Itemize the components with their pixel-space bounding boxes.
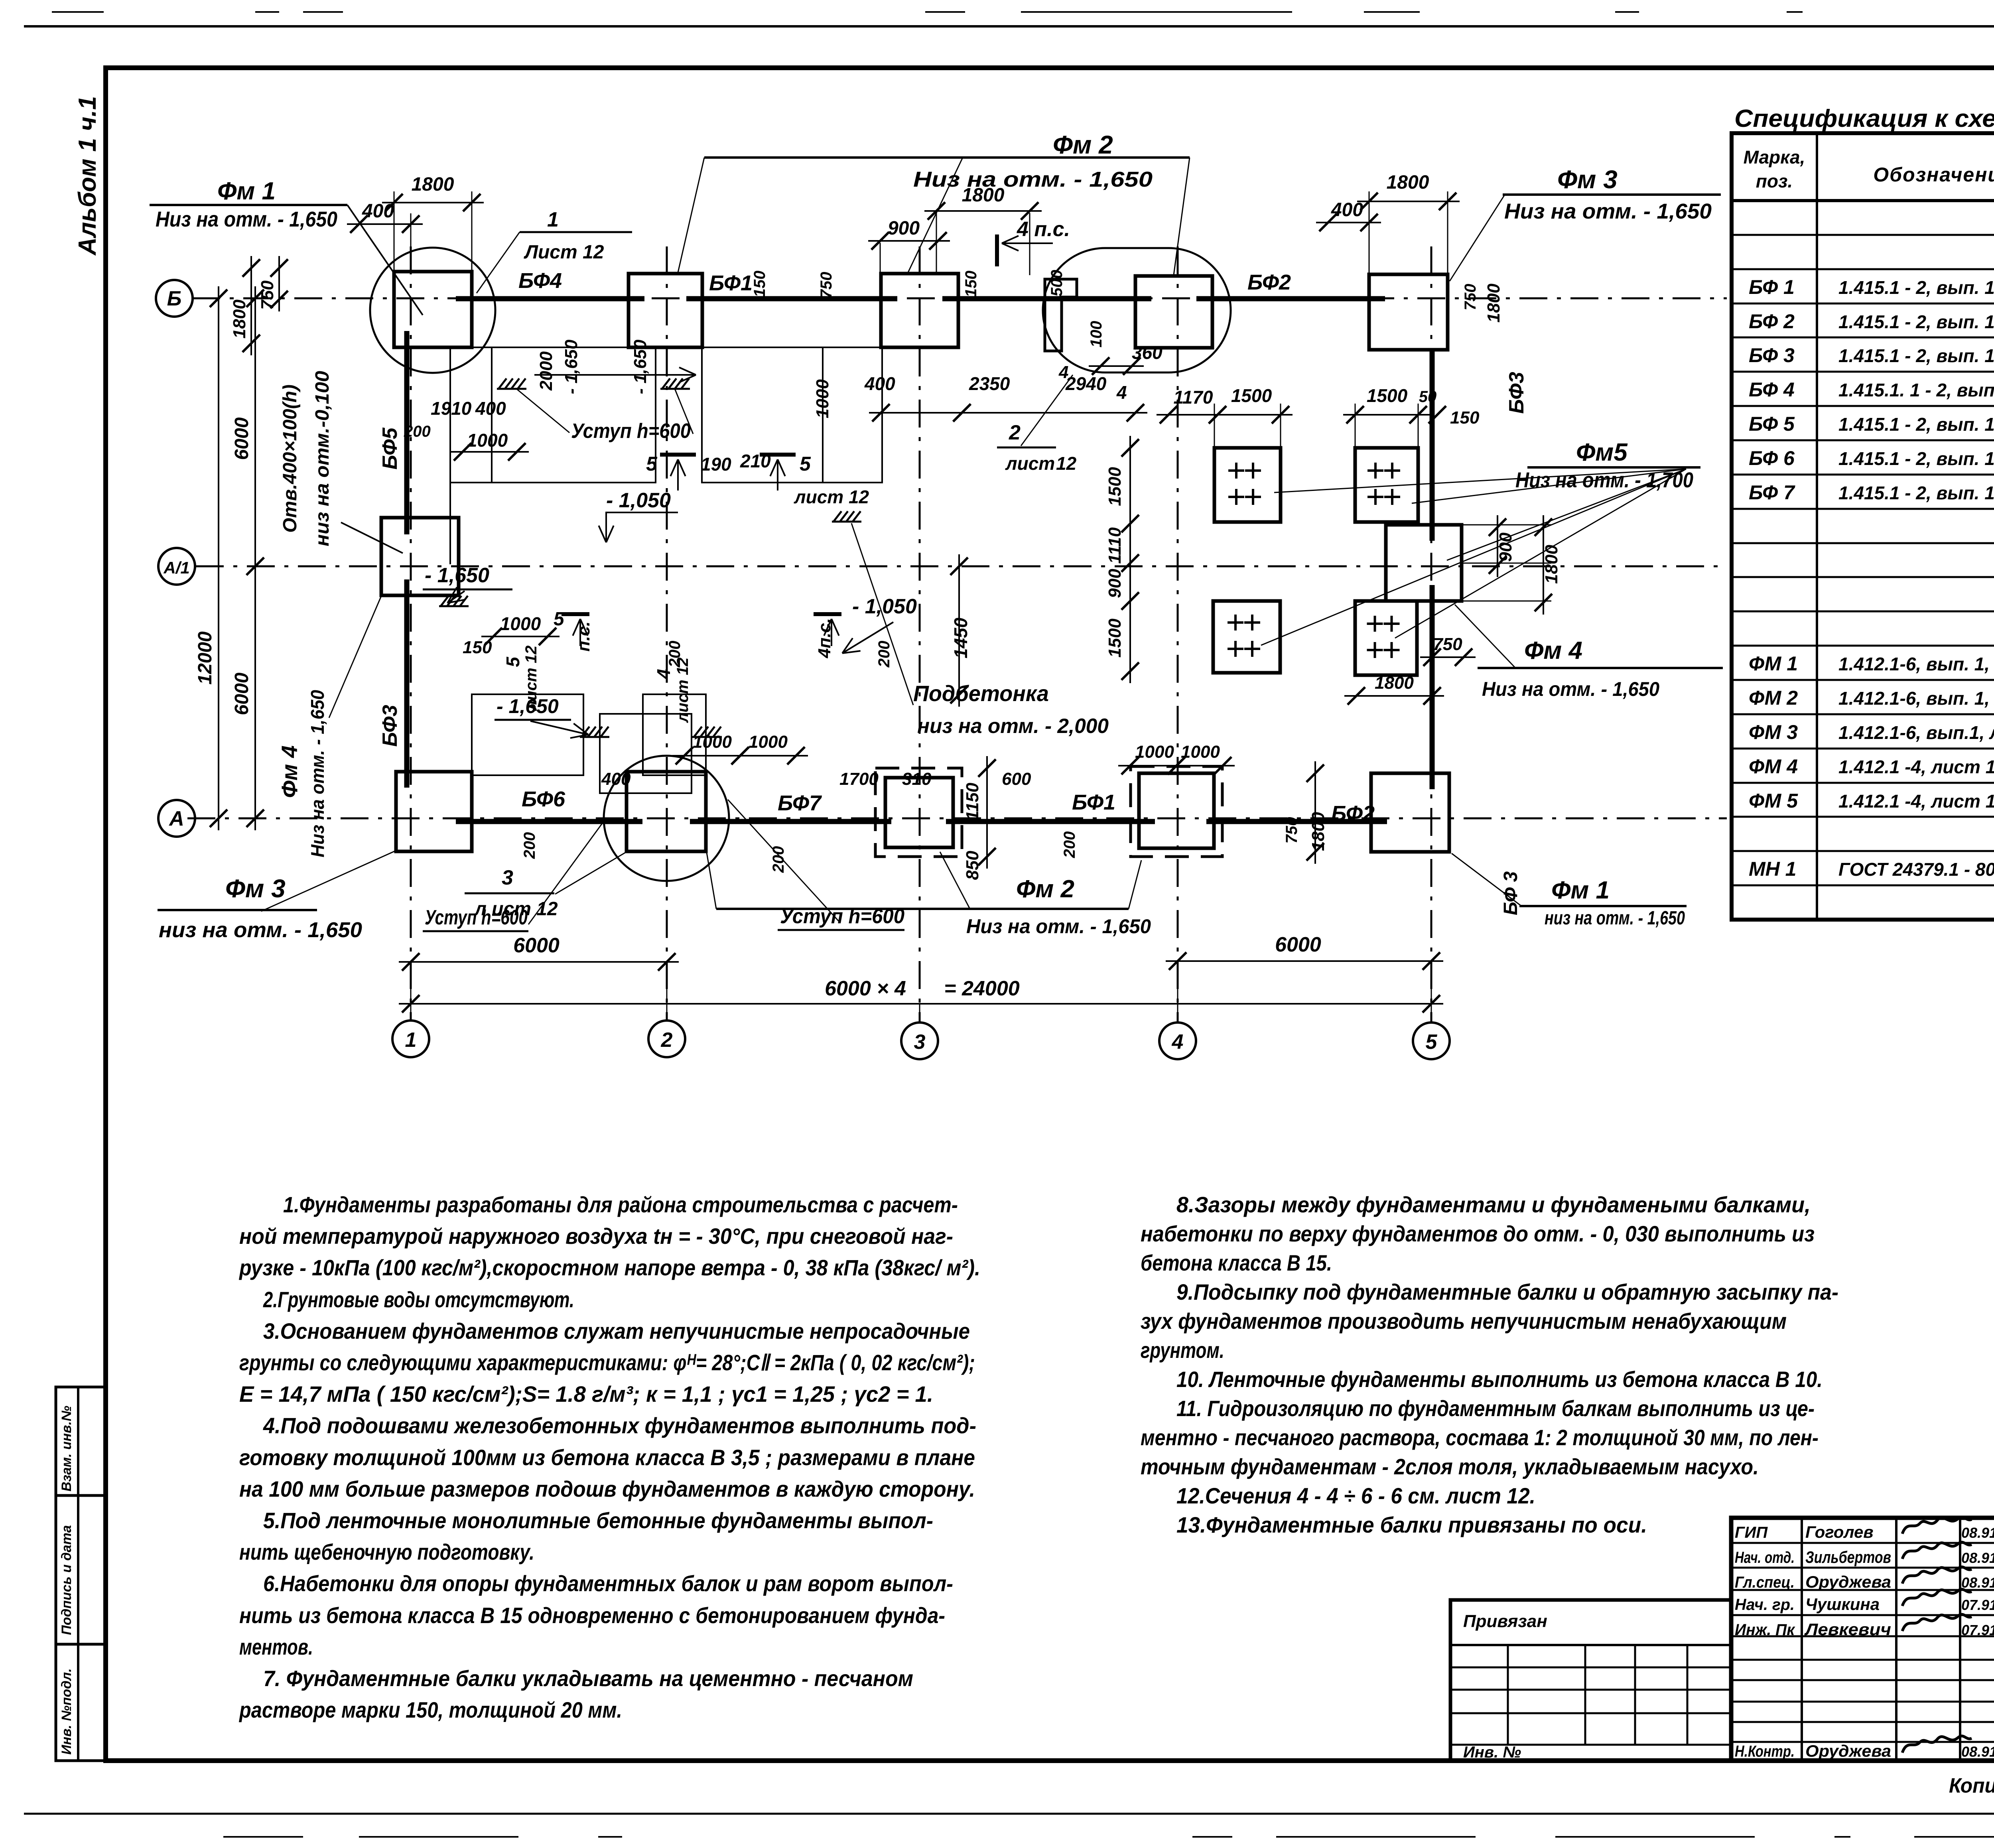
svg-text:200: 200: [875, 641, 893, 668]
svg-text:400: 400: [864, 373, 895, 394]
svg-text:Подпись и дата: Подпись и дата: [59, 1525, 74, 1635]
svg-text:1.415.1 - 2, вып. 1: 1.415.1 - 2, вып. 1: [1838, 483, 1994, 503]
svg-text:2: 2: [1009, 421, 1021, 444]
svg-text:- 1,050: - 1,050: [606, 489, 671, 512]
svg-text:07.91: 07.91: [1961, 1622, 1994, 1638]
svg-text:1150: 1150: [963, 782, 982, 820]
svg-text:1: 1: [547, 208, 559, 231]
svg-text:750: 750: [1433, 634, 1462, 654]
svg-text:Низ на отм. - 1,650: Низ на отм. - 1,650: [1482, 678, 1659, 700]
svg-text:150: 150: [463, 638, 492, 657]
svg-text:200: 200: [1061, 831, 1078, 859]
svg-text:1000: 1000: [693, 732, 732, 752]
svg-text:4: 4: [1116, 382, 1127, 403]
svg-text:3: 3: [914, 1030, 926, 1054]
svg-text:1000: 1000: [1135, 742, 1174, 762]
svg-text:растворе марки 150, толщин: растворе марки 150, толщиной 20 мм.: [238, 1697, 622, 1722]
svg-text:грунты со следующими характ: грунты со следующими характеристиками: φ…: [239, 1350, 975, 1375]
svg-text:Фм 4: Фм 4: [1524, 637, 1582, 664]
svg-text:Фм 3: Фм 3: [225, 874, 286, 903]
svg-text:Левкевич: Левкевич: [1804, 1620, 1891, 1639]
svg-text:Уступ h=600: Уступ h=600: [571, 420, 691, 443]
svg-text:2: 2: [661, 1028, 673, 1052]
svg-text:Подбетонка: Подбетонка: [913, 681, 1049, 706]
svg-text:10. Ленточные фундаменты в: 10. Ленточные фундаменты выполнить из бе…: [1176, 1367, 1823, 1392]
svg-text:150: 150: [751, 271, 768, 297]
svg-text:Гл.спец.: Гл.спец.: [1735, 1574, 1795, 1591]
svg-text:1000: 1000: [500, 613, 541, 634]
svg-text:Марка,: Марка,: [1744, 147, 1805, 167]
svg-text:Инж. Пк: Инж. Пк: [1735, 1621, 1795, 1639]
svg-text:БФ2: БФ2: [1247, 270, 1291, 294]
svg-text:11. Гидроизоляцию по фундамен: 11. Гидроизоляцию по фундаментным балкам…: [1176, 1396, 1815, 1421]
svg-text:Низ на отм. - 1,650: Низ на отм. - 1,650: [156, 207, 337, 231]
svg-text:- 1,650: - 1,650: [562, 339, 581, 394]
svg-text:ментов.: ментов.: [239, 1634, 313, 1659]
svg-text:750: 750: [1462, 284, 1479, 311]
svg-text:1500: 1500: [1105, 467, 1125, 506]
svg-text:лист: лист: [1005, 453, 1055, 474]
svg-text:1800: 1800: [412, 174, 454, 195]
svg-text:1500: 1500: [1105, 619, 1125, 658]
svg-text:низ на отм.-0,100: низ на отм.-0,100: [312, 371, 333, 546]
svg-text:Фм 2: Фм 2: [1053, 130, 1113, 159]
svg-text:БФ3: БФ3: [1505, 372, 1528, 414]
svg-text:150: 150: [962, 271, 980, 297]
svg-text:п.с.: п.с.: [574, 621, 593, 652]
svg-text:БФ5: БФ5: [378, 427, 402, 469]
svg-text:готовку толщиной 100мм из: готовку толщиной 100мм из бетона класса …: [239, 1445, 975, 1470]
svg-text:310: 310: [902, 769, 932, 789]
svg-text:13.Фундаментные балки прив: 13.Фундаментные балки привязаны по оси.: [1176, 1512, 1647, 1537]
svg-text:ФМ 1: ФМ 1: [1749, 652, 1798, 675]
svg-text:Чушкина: Чушкина: [1805, 1595, 1880, 1614]
svg-text:БФ 5: БФ 5: [1749, 413, 1795, 435]
svg-text:1.412.1-6, вып. 1, лист 13: 1.412.1-6, вып. 1, лист 13: [1838, 654, 1994, 674]
svg-text:Уступ h=600: Уступ h=600: [425, 906, 528, 929]
svg-text:12.Сечения 4 - 4 ÷ 6 - 6 с: 12.Сечения 4 - 4 ÷ 6 - 6 см. лист 12.: [1176, 1483, 1535, 1508]
svg-text:1.415.1 - 2, вып. 1: 1.415.1 - 2, вып. 1: [1838, 311, 1994, 332]
svg-text:БФ 4: БФ 4: [1749, 378, 1795, 401]
svg-text:4: 4: [1172, 1030, 1184, 1054]
svg-text:400: 400: [601, 769, 631, 789]
svg-text:4 п.с.: 4 п.с.: [1017, 218, 1070, 241]
svg-text:1.415.1 - 2, вып. 1: 1.415.1 - 2, вып. 1: [1838, 277, 1994, 298]
svg-text:Низ на отм. - 1,650: Низ на отм. - 1,650: [1504, 199, 1712, 223]
svg-text:А: А: [168, 807, 184, 830]
svg-text:нить из бетона класса В 15: нить из бетона класса В 15 одновременно …: [239, 1603, 945, 1628]
svg-text:1700: 1700: [839, 769, 879, 789]
svg-text:150: 150: [1450, 408, 1480, 428]
svg-text:нить щебеночную подготовку.: нить щебеночную подготовку.: [239, 1539, 534, 1564]
svg-text:А/1: А/1: [163, 558, 189, 577]
svg-text:6000: 6000: [231, 417, 252, 460]
svg-text:БФ 6: БФ 6: [1749, 447, 1795, 469]
svg-text:1.415.1 - 2, вып. 1: 1.415.1 - 2, вып. 1: [1838, 414, 1994, 435]
svg-text:- 1,050: - 1,050: [852, 595, 917, 618]
svg-text:4: 4: [653, 669, 674, 680]
svg-text:1800: 1800: [1387, 172, 1429, 193]
svg-text:Фм 3: Фм 3: [1557, 165, 1618, 194]
svg-text:ной температурой наружного: ной температурой наружного воздуха tн = …: [239, 1223, 953, 1249]
svg-text:низ на отм. - 2,000: низ на отм. - 2,000: [917, 715, 1109, 738]
svg-text:1000: 1000: [749, 732, 788, 752]
svg-text:5: 5: [1426, 1030, 1438, 1054]
svg-text:400: 400: [362, 201, 394, 222]
svg-text:750: 750: [1283, 817, 1300, 844]
svg-text:6.Набетонки для опоры фунда: 6.Набетонки для опоры фундаментных балок…: [263, 1571, 953, 1596]
svg-text:2000: 2000: [536, 351, 556, 391]
svg-text:ГИП: ГИП: [1735, 1524, 1768, 1541]
svg-text:1110: 1110: [1105, 527, 1125, 564]
svg-text:8.Зазоры между фундаментам: 8.Зазоры между фундаментами и фундаменым…: [1176, 1192, 1811, 1217]
svg-text:точным фундаментам - 2слоя: точным фундаментам - 2слоя толя, укладыв…: [1141, 1454, 1759, 1479]
svg-text:Альбом 1 ч.1: Альбом 1 ч.1: [74, 96, 101, 256]
svg-text:1800: 1800: [1308, 812, 1328, 851]
svg-text:9.Подсыпку под фундаментные: 9.Подсыпку под фундаментные балки и обра…: [1176, 1279, 1838, 1304]
svg-text:1910: 1910: [431, 398, 472, 419]
svg-text:ФМ 5: ФМ 5: [1749, 790, 1798, 812]
svg-text:Обозначение: Обозначение: [1873, 164, 1994, 186]
svg-text:бетона класса В 15.: бетона класса В 15.: [1141, 1250, 1332, 1275]
svg-text:1.412.1-6, вып.1, лист 13: 1.412.1-6, вып.1, лист 13: [1838, 722, 1994, 743]
svg-text:5: 5: [646, 453, 658, 475]
svg-text:1.412.1 -4, лист 13: 1.412.1 -4, лист 13: [1838, 791, 1994, 812]
svg-text:7. Фундаментные балки уклад: 7. Фундаментные балки укладывать на цеме…: [263, 1666, 913, 1691]
svg-text:БФ7: БФ7: [778, 791, 822, 815]
svg-text:1000: 1000: [1181, 742, 1220, 762]
svg-text:Фм5: Фм5: [1576, 439, 1628, 466]
svg-text:низ на отм. - 1,650: низ на отм. - 1,650: [159, 918, 362, 942]
svg-text:1.412.1 -4, лист 14: 1.412.1 -4, лист 14: [1838, 757, 1994, 777]
svg-text:5: 5: [502, 656, 523, 667]
svg-text:1800: 1800: [230, 299, 249, 339]
svg-text:Фм 1: Фм 1: [217, 177, 276, 205]
svg-text:лист 12: лист 12: [674, 658, 692, 723]
svg-text:рузке - 10кПа (100 кгс/м²),ско: рузке - 10кПа (100 кгс/м²),скоростном на…: [238, 1255, 980, 1280]
svg-text:50: 50: [1419, 388, 1437, 406]
svg-text:Низ на отм. - 1,650: Низ на отм. - 1,650: [307, 690, 328, 857]
svg-text:Оруджева: Оруджева: [1805, 1742, 1891, 1760]
svg-text:190: 190: [701, 454, 731, 475]
svg-text:400: 400: [1331, 199, 1363, 221]
svg-text:1800: 1800: [1484, 284, 1503, 323]
svg-text:БФ4: БФ4: [518, 269, 562, 293]
svg-text:ФМ 3: ФМ 3: [1749, 721, 1798, 743]
svg-text:6000: 6000: [1275, 933, 1321, 956]
svg-text:3: 3: [502, 866, 513, 889]
svg-text:08.91: 08.91: [1961, 1574, 1994, 1591]
svg-text:08.91: 08.91: [1961, 1550, 1994, 1566]
svg-text:5: 5: [800, 453, 811, 475]
svg-text:1.415.1 - 2, вып. 1: 1.415.1 - 2, вып. 1: [1838, 448, 1994, 469]
svg-text:ФМ 4: ФМ 4: [1749, 755, 1798, 778]
svg-text:5: 5: [554, 609, 565, 630]
svg-text:Копировал: Сидорова: Копировал: Сидорова: [1949, 1774, 1994, 1797]
svg-text:Нач. гр.: Нач. гр.: [1735, 1596, 1795, 1614]
svg-text:Фм 1: Фм 1: [1551, 877, 1610, 904]
svg-text:Гоголев: Гоголев: [1805, 1523, 1874, 1541]
svg-text:Лист 12: Лист 12: [524, 242, 604, 263]
svg-text:6000 × 4: 6000 × 4: [825, 977, 906, 1000]
svg-text:Е = 14,7 мПа ( 150 кгс/см²);S=: Е = 14,7 мПа ( 150 кгс/см²);S= 1.8 г/м³;…: [239, 1381, 933, 1407]
svg-text:Нач. отд.: Нач. отд.: [1735, 1549, 1795, 1566]
svg-text:1450: 1450: [950, 617, 971, 658]
svg-text:750: 750: [258, 280, 277, 310]
svg-text:- 1,650: - 1,650: [425, 564, 489, 587]
svg-text:Инв. №: Инв. №: [1463, 1744, 1521, 1761]
svg-text:200: 200: [521, 832, 538, 859]
svg-text:Оруджева: Оруджева: [1805, 1572, 1891, 1591]
svg-text:500: 500: [1048, 270, 1066, 297]
svg-text:БФ1: БФ1: [1072, 790, 1115, 814]
svg-text:6000: 6000: [513, 934, 560, 957]
svg-text:БФ 7: БФ 7: [1749, 481, 1795, 504]
svg-text:ГОСТ 24379.1 - 80: ГОСТ 24379.1 - 80: [1838, 859, 1994, 880]
svg-text:2350: 2350: [969, 373, 1010, 394]
svg-text:1500: 1500: [1367, 385, 1408, 406]
svg-text:Инв. №подл.: Инв. №подл.: [59, 1668, 74, 1755]
svg-text:БФ 2: БФ 2: [1749, 310, 1795, 333]
svg-text:- 1,650: - 1,650: [631, 339, 650, 394]
svg-text:Фм 2: Фм 2: [1016, 875, 1074, 903]
svg-text:200: 200: [404, 423, 431, 440]
svg-text:ФМ 2: ФМ 2: [1749, 687, 1798, 709]
svg-text:750: 750: [818, 272, 835, 299]
svg-text:Отв.400×100(h): Отв.400×100(h): [280, 384, 301, 533]
svg-text:зух фундаментов производить: зух фундаментов производить непучинистым…: [1141, 1308, 1787, 1334]
svg-text:Спецификация к схеме располож: Спецификация к схеме расположения фундам…: [1734, 105, 1994, 132]
svg-text:2.Грунтовые воды отсутствуют: 2.Грунтовые воды отсутствуют.: [263, 1287, 574, 1312]
svg-text:6000: 6000: [231, 672, 252, 715]
svg-text:БФ2: БФ2: [1331, 802, 1375, 825]
svg-text:4.Под подошвами железобетонн: 4.Под подошвами железобетонных фундамент…: [263, 1413, 976, 1438]
svg-text:Н.Контр.: Н.Контр.: [1735, 1743, 1795, 1760]
svg-text:Б: Б: [167, 287, 182, 310]
svg-text:низ на отм. - 1,650: низ на отм. - 1,650: [1545, 908, 1685, 929]
svg-text:600: 600: [1002, 769, 1031, 789]
svg-text:900: 900: [888, 218, 920, 239]
svg-text:Зильбертов: Зильбертов: [1805, 1548, 1891, 1566]
svg-text:900: 900: [1105, 569, 1125, 598]
svg-text:5.Под ленточные монолитные: 5.Под ленточные монолитные бетонные фунд…: [263, 1508, 933, 1533]
svg-text:Фм 4: Фм 4: [277, 745, 302, 798]
svg-text:1.412.1-6, вып. 1, лист 13: 1.412.1-6, вып. 1, лист 13: [1838, 688, 1994, 709]
svg-text:лист 12: лист 12: [794, 487, 869, 507]
svg-text:БФ3: БФ3: [378, 705, 402, 747]
svg-text:БФ1: БФ1: [709, 271, 753, 295]
svg-text:Низ на отм. - 1,650: Низ на отм. - 1,650: [966, 915, 1151, 938]
svg-text:Низ на отм. - 1,650: Низ на отм. - 1,650: [913, 167, 1153, 191]
svg-text:1000: 1000: [467, 430, 508, 451]
svg-text:БФ 1: БФ 1: [1749, 276, 1795, 298]
svg-text:1: 1: [405, 1028, 417, 1052]
svg-text:200: 200: [770, 846, 787, 873]
svg-text:- 1,650: - 1,650: [497, 695, 559, 717]
svg-text:Привязан: Привязан: [1463, 1612, 1547, 1631]
svg-text:грунтом.: грунтом.: [1141, 1338, 1224, 1363]
svg-text:08.91: 08.91: [1961, 1525, 1994, 1541]
svg-text:1800: 1800: [1375, 673, 1414, 693]
svg-text:08.91: 08.91: [1961, 1744, 1994, 1760]
svg-text:на 100 мм больше размеров п: на 100 мм больше размеров подошв фундаме…: [239, 1476, 975, 1501]
svg-text:1.415.1. 1 - 2, вып. 1: 1.415.1. 1 - 2, вып. 1: [1838, 380, 1994, 400]
svg-text:= 24000: = 24000: [944, 977, 1019, 1000]
svg-text:12000: 12000: [195, 631, 216, 685]
svg-text:набетонки по верху фундамен: набетонки по верху фундаментов до отм. -…: [1141, 1221, 1815, 1246]
svg-text:Взам. инв.№: Взам. инв.№: [59, 1406, 74, 1491]
svg-text:100: 100: [1088, 321, 1105, 348]
svg-text:БФ6: БФ6: [522, 787, 565, 811]
svg-text:БФ 3: БФ 3: [1749, 344, 1795, 366]
svg-text:07.91: 07.91: [1961, 1597, 1994, 1613]
svg-text:1.415.1 - 2, вып. 1: 1.415.1 - 2, вып. 1: [1838, 345, 1994, 366]
svg-text:1500: 1500: [1231, 385, 1272, 406]
svg-text:1000: 1000: [813, 379, 832, 418]
svg-text:12: 12: [1056, 453, 1077, 474]
svg-text:4: 4: [1058, 363, 1068, 382]
svg-text:ментно - песчаного раствора,: ментно - песчаного раствора, состава 1: …: [1141, 1425, 1819, 1450]
svg-text:1.Фундаменты разработаны для: 1.Фундаменты разработаны для района стро…: [283, 1192, 958, 1217]
svg-text:3.Основанием фундаментов слу: 3.Основанием фундаментов служат непучини…: [263, 1318, 970, 1344]
svg-text:МН 1: МН 1: [1749, 858, 1796, 880]
svg-text:поз.: поз.: [1756, 171, 1793, 191]
svg-text:1170: 1170: [1174, 387, 1213, 408]
svg-text:400: 400: [475, 398, 506, 419]
